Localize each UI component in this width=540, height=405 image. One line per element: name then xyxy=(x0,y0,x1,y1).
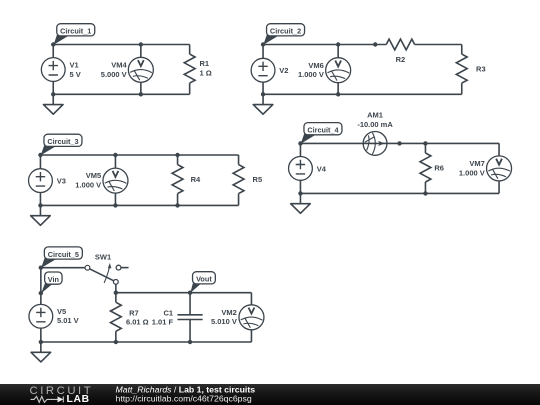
svg-text:V2: V2 xyxy=(279,66,288,75)
svg-text:R7: R7 xyxy=(129,308,139,317)
svg-text:R5: R5 xyxy=(253,175,263,184)
svg-text:R4: R4 xyxy=(191,175,201,184)
svg-text:1 Ω: 1 Ω xyxy=(199,69,211,78)
svg-text:-10.00 mA: -10.00 mA xyxy=(357,120,393,129)
svg-text:Circuit_1: Circuit_1 xyxy=(60,27,91,36)
svg-text:1.000 V: 1.000 V xyxy=(298,70,324,79)
svg-text:VM4: VM4 xyxy=(111,61,127,70)
svg-text:5.01 V: 5.01 V xyxy=(57,316,79,325)
svg-text:Circuit_4: Circuit_4 xyxy=(307,126,339,135)
svg-text:5.010 V: 5.010 V xyxy=(211,317,237,326)
svg-text:1.000 V: 1.000 V xyxy=(75,181,101,190)
svg-text:SW1: SW1 xyxy=(95,253,111,262)
svg-text:V5: V5 xyxy=(57,307,66,316)
svg-text:VM6: VM6 xyxy=(308,61,323,70)
svg-text:Circuit_5: Circuit_5 xyxy=(48,250,79,259)
svg-text:V4: V4 xyxy=(317,164,327,173)
svg-text:R6: R6 xyxy=(434,164,444,173)
svg-text:R2: R2 xyxy=(396,55,406,64)
svg-text:LAB: LAB xyxy=(67,394,90,405)
svg-text:VM5: VM5 xyxy=(86,171,101,180)
svg-text:R1: R1 xyxy=(199,59,209,68)
svg-text:Vout: Vout xyxy=(196,275,212,284)
svg-text:V3: V3 xyxy=(57,177,66,186)
svg-text:1.000 V: 1.000 V xyxy=(459,168,485,177)
svg-text:Vin: Vin xyxy=(48,275,59,284)
svg-text:VM2: VM2 xyxy=(221,308,236,317)
svg-text:Circuit_2: Circuit_2 xyxy=(270,27,301,36)
svg-text:AM1: AM1 xyxy=(367,111,383,120)
svg-text:1.01 F: 1.01 F xyxy=(152,318,174,327)
svg-text:V1: V1 xyxy=(70,61,79,70)
svg-text:C1: C1 xyxy=(163,308,173,317)
svg-text:5.000 V: 5.000 V xyxy=(101,70,127,79)
svg-text:R3: R3 xyxy=(476,65,486,74)
svg-text:Circuit_3: Circuit_3 xyxy=(47,137,78,146)
svg-text:http://circuitlab.com/c46t726q: http://circuitlab.com/c46t726qc6psg xyxy=(116,394,252,404)
svg-text:VM7: VM7 xyxy=(469,159,484,168)
svg-text:6.01 Ω: 6.01 Ω xyxy=(126,318,149,327)
svg-text:5 V: 5 V xyxy=(70,70,81,79)
